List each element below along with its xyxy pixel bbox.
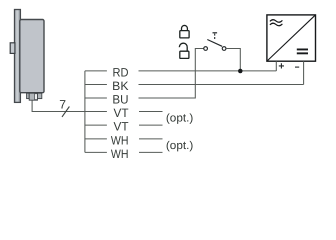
- closed padlock: [180, 25, 189, 37]
- stub WH1: [85, 138, 107, 140]
- switch right contact: [222, 47, 226, 51]
- minus label: [295, 66, 299, 68]
- switch actuator T bar: [213, 32, 218, 34]
- svg-text:BK: BK: [112, 79, 128, 93]
- reader device body: [20, 20, 44, 93]
- stub VT1: [85, 111, 107, 113]
- reader device side tab: [10, 43, 15, 54]
- wire bus vertical: [84, 71, 86, 152]
- wire BU to switch: [139, 49, 204, 99]
- reader device mounting plate: [15, 10, 21, 103]
- stub BK: [85, 84, 107, 86]
- stub VT2: [85, 124, 107, 126]
- svg-text:BU: BU: [112, 93, 128, 107]
- svg-text:WH: WH: [111, 147, 129, 161]
- cable gland main body: [29, 93, 37, 100]
- supply minus terminal: [303, 61, 305, 84]
- power supply box U1: [267, 15, 316, 61]
- wire WH1 optional: [139, 138, 163, 140]
- power supply diagonal: [267, 15, 315, 61]
- switch left contact: [204, 47, 208, 51]
- svg-text:7: 7: [59, 98, 66, 112]
- AC symbol: [270, 20, 283, 26]
- junction dot: [238, 69, 243, 74]
- cable from reader to wire bus: [32, 100, 85, 111]
- svg-text:VT: VT: [114, 106, 130, 120]
- DC symbol: [297, 49, 308, 55]
- svg-text:WH: WH: [111, 133, 129, 147]
- stub WH2: [85, 151, 107, 153]
- stub RD: [85, 70, 107, 72]
- svg-text:(opt.): (opt.): [166, 140, 194, 152]
- cable gland right collar: [38, 93, 42, 98]
- cable gland left collar: [27, 93, 30, 98]
- wire RD to supply plus: [139, 70, 277, 72]
- wire VT2 optional: [139, 124, 163, 126]
- switch blade: [207, 40, 222, 47]
- wire VT1 optional: [139, 111, 163, 113]
- svg-text:VT: VT: [114, 120, 130, 134]
- svg-text:(opt.): (opt.): [166, 112, 194, 124]
- switch actuator T stem dashed: [214, 34, 216, 40]
- plus label: [279, 63, 284, 68]
- svg-text:RD: RD: [113, 65, 129, 79]
- wire WH2 optional: [139, 151, 163, 153]
- wire switch to junction: [226, 49, 240, 72]
- open padlock: [179, 43, 189, 58]
- supply plus terminal: [275, 61, 277, 71]
- cable count slash: [62, 107, 69, 117]
- cable gland highlight window: [35, 94, 38, 100]
- stub BU: [85, 97, 107, 99]
- wire BK to supply minus: [139, 84, 304, 86]
